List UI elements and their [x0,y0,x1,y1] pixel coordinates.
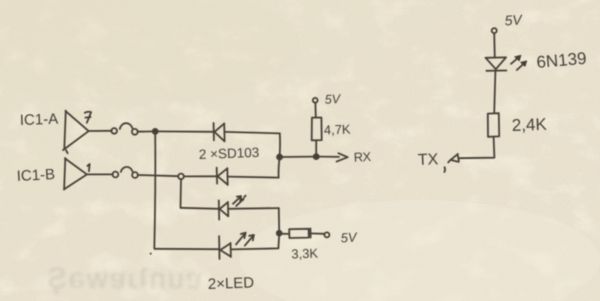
wire to RX arrow [319,156,339,158]
LED D4 [219,236,231,259]
wire D3 to corner [228,207,278,210]
wire D2 to corner [228,177,279,178]
svg-text:5V: 5V [324,92,342,107]
wire R2 to 5V terminal [309,228,325,237]
node junction RX [277,155,282,160]
svg-text:IC1-A: IC1-A [20,111,59,129]
svg-text:IC1-B: IC1-B [16,166,55,185]
svg-text:5V: 5V [340,229,358,245]
label 2xSD103 [199,145,260,162]
label 5V (4.7K) [324,92,342,107]
wire to bus node [137,130,152,132]
terminal 5V circle (3.3K) [324,232,329,237]
label 5V (3.3K) [340,229,358,245]
wire RX node to resistor node [282,156,313,158]
wire IC1-B output [87,173,113,175]
node tap circle [178,174,184,180]
label IC1-A [20,111,59,129]
wire 5V to LED D5 [493,33,496,57]
label RX [353,149,372,165]
wire D5 to resistor R3 [494,71,495,113]
wire to LED D3 [181,208,219,209]
LED D3 arrows [233,196,246,206]
wire corner up to 3.3K node [277,235,280,249]
label 6N139 [536,49,588,72]
svg-text:ɐunʇɹɐwǝŞ: ɐunʇɹɐwǝŞ [45,263,202,295]
label 5V (right) [504,11,524,28]
wire bus to LED D4 [154,248,219,250]
LED D5 arrows [511,55,527,70]
terminal 5V circle (4.7K) [313,98,318,103]
bleed-through text from reverse side [45,263,202,295]
resistor R2 3.3K body [289,229,309,238]
svg-text:2×LED: 2×LED [208,274,255,293]
label 2,4K [511,115,547,135]
wire corner down to RX node [279,133,281,155]
connector contact B right [132,172,138,178]
svg-text:4,7K: 4,7K [324,122,352,138]
label 2xLED [208,274,255,293]
wire R1 to node [315,140,317,154]
ink dot [150,253,152,255]
op-amp buffer IC1-A [63,111,89,154]
wire 5V to resistor R1 [314,103,316,118]
wire corner down to 3.3K node [278,208,280,232]
TX arrowhead [448,154,459,163]
jumper arc A [120,123,133,129]
terminal 5V circle (right) [492,28,497,33]
op-amp buffer IC1-B [64,158,87,190]
diode D1 SD103 [214,123,225,141]
label TX [418,151,439,169]
resistor R3 2.4K body [488,113,499,137]
wire across bus to tap [138,175,179,176]
wire tap to D2 [184,175,217,177]
wire IC1-A output [89,130,112,132]
vertical bus wire [154,134,155,249]
wire tap down to LED row [180,179,183,208]
label 3,3K [291,246,319,262]
connector contact B left [113,172,119,178]
connector contact A right [132,129,138,135]
svg-text:2 ×SD103: 2 ×SD103 [199,145,260,162]
pin 7 [85,112,91,123]
label 4,7K [324,122,352,138]
stray pen mark [443,167,446,172]
svg-text:3,3K: 3,3K [291,246,319,262]
RX arrowhead [337,153,348,161]
wire corner up to RX node [279,158,280,178]
LED D5 (6N139 input) [486,57,507,70]
svg-text:5V: 5V [504,11,524,28]
label IC1-B [16,166,55,185]
wire R3 down and left to TX [459,137,495,158]
connector contact A left [111,128,117,134]
wire node to D1 [158,130,214,132]
LED D4 arrows [236,233,254,246]
node junction 3.3K [277,231,282,236]
LED D3 [219,200,229,219]
wire D4 to corner [231,248,279,249]
wire D1 to corner [225,132,280,134]
node junction resistor [314,154,319,159]
svg-text:RX: RX [353,149,372,165]
jumper arc B [121,167,133,172]
diode D2 SD103 [217,168,228,185]
resistor R1 4.7K body [312,118,322,141]
node junction bus top [153,129,158,134]
svg-text:2,4K: 2,4K [511,115,547,135]
wire node to resistor R2 [282,233,289,235]
pin 1 [87,164,89,171]
svg-text:TX: TX [418,151,439,169]
